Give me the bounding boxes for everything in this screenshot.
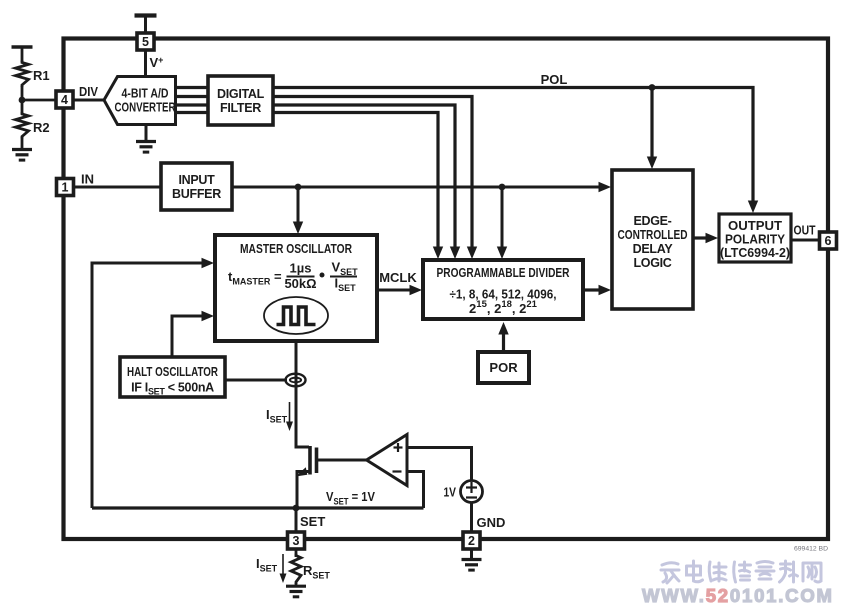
junction IN to master oscillator	[295, 184, 302, 191]
resistor R2	[16, 112, 29, 139]
svg-text:4: 4	[61, 93, 68, 107]
4-bit A/D converter	[104, 77, 176, 125]
pin 3	[288, 532, 305, 549]
wire MCLK	[377, 285, 422, 295]
wire 1V to pin 2	[470, 503, 473, 533]
resistor R1	[16, 61, 29, 88]
wire master oscillator to MOSFET drain	[296, 341, 309, 447]
wire pin5 to A/D converter	[144, 50, 147, 78]
svg-text:(LTC6994-2): (LTC6994-2)	[720, 246, 790, 260]
master oscillator box	[215, 235, 377, 341]
pin 2	[463, 532, 480, 549]
svg-text:SET: SET	[300, 514, 325, 529]
wire IN to master oscillator	[293, 187, 303, 234]
junction POL to edge logic	[649, 84, 656, 91]
svg-text:DIV: DIV	[79, 84, 98, 99]
output polarity box	[719, 214, 791, 262]
svg-text:50kΩ: 50kΩ	[284, 276, 316, 291]
wire POL to edge logic	[647, 88, 657, 170]
svg-text:DELAY: DELAY	[633, 242, 674, 256]
node DIV junction	[19, 97, 26, 104]
edge-controlled delay logic	[612, 170, 693, 309]
svg-text:3: 3	[293, 534, 300, 548]
junction SET node	[293, 505, 300, 512]
resistor RSET	[291, 554, 301, 585]
svg-text:R2: R2	[33, 120, 50, 135]
svg-text:HALT OSCILLATOR: HALT OSCILLATOR	[127, 365, 218, 379]
svg-text:DIGITAL: DIGITAL	[217, 87, 265, 101]
svg-text:6: 6	[825, 234, 832, 248]
wire op-amp + to 1V source	[407, 448, 472, 482]
wire filter bit1 to divider	[273, 97, 477, 260]
pin 6	[820, 232, 837, 249]
pin 5	[137, 33, 154, 50]
svg-text:BUFFER: BUFFER	[172, 187, 221, 201]
junction IN to divider	[499, 184, 506, 191]
wire filter bit2 to divider	[273, 105, 460, 259]
input buffer	[161, 163, 232, 210]
wire halt to sense	[225, 379, 287, 382]
V+ supply rail	[135, 16, 157, 35]
svg-text:POL: POL	[541, 72, 568, 87]
wire R2 to ground	[21, 137, 24, 149]
wire edge logic to output polarity	[693, 233, 718, 243]
svg-text:EDGE-: EDGE-	[633, 214, 671, 228]
IC boundary	[64, 39, 829, 540]
svg-text:MASTER OSCILLATOR: MASTER OSCILLATOR	[240, 241, 352, 256]
svg-text:INPUT: INPUT	[178, 173, 215, 187]
svg-text:1V: 1V	[444, 485, 457, 500]
op-amp U1	[367, 435, 408, 486]
wire pin4 to A/D converter	[73, 99, 106, 102]
wire IN to divider	[497, 187, 507, 259]
svg-text:POR: POR	[489, 360, 518, 375]
wire output polarity to pin 6	[791, 239, 820, 242]
wire VSET line	[92, 506, 424, 509]
wire pin 3 to RSET	[295, 549, 298, 557]
label tMASTER equation	[228, 260, 358, 294]
svg-text:5: 5	[142, 35, 149, 49]
wire filter bit3 to divider	[273, 113, 443, 260]
svg-text:VSET = 1V: VSET = 1V	[326, 489, 375, 507]
V+ supply rail (R1)	[12, 47, 33, 62]
ground (pin 2)	[462, 549, 482, 570]
svg-text:GND: GND	[477, 515, 506, 530]
POR box	[478, 352, 529, 383]
wire POL	[273, 88, 758, 214]
wire feedback to master oscillator	[92, 258, 214, 508]
watermark chinese text	[661, 561, 821, 583]
wire A/D to ground	[145, 125, 148, 142]
svg-text:R1: R1	[33, 68, 50, 83]
svg-text:699412 BD: 699412 BD	[794, 546, 828, 553]
ground (RSET)	[286, 583, 306, 597]
svg-text:1: 1	[62, 181, 69, 195]
svg-text:MCLK: MCLK	[379, 270, 417, 285]
arrow ISET (drain)	[286, 402, 293, 431]
wire SET node to pin 3	[295, 508, 298, 532]
wire R1 to R2	[21, 86, 24, 114]
current sense symbol	[286, 374, 306, 387]
wire op-amp inverting input	[408, 472, 424, 509]
arrow ISET (RSET)	[280, 554, 287, 583]
ground (R2)	[12, 150, 32, 161]
svg-text:1µs: 1µs	[290, 261, 312, 276]
svg-text:LOGIC: LOGIC	[633, 256, 671, 270]
voltage source 1V	[461, 481, 483, 503]
svg-text:IN: IN	[81, 172, 94, 187]
svg-text:IF ISET < 500nA: IF ISET < 500nA	[131, 381, 214, 397]
transistor M1	[296, 446, 368, 508]
wire halt to master oscillator	[172, 311, 214, 356]
wire divider to edge logic	[583, 285, 611, 295]
svg-text:CONTROLLED: CONTROLLED	[618, 228, 688, 242]
svg-text:OUTPUT: OUTPUT	[728, 219, 782, 233]
wire node to pin 4	[22, 99, 56, 102]
svg-text:OUT: OUT	[794, 223, 816, 238]
svg-text:PROGRAMMABLE DIVIDER: PROGRAMMABLE DIVIDER	[437, 265, 570, 280]
svg-text:4-BIT A/D: 4-BIT A/D	[122, 87, 169, 101]
bus A/D to digital filter	[176, 88, 210, 113]
svg-text:CONVERTER: CONVERTER	[115, 101, 176, 115]
pin 4	[56, 91, 73, 108]
ground (A/D converter)	[136, 142, 156, 153]
pin 1	[57, 179, 74, 196]
svg-text:FILTER: FILTER	[220, 101, 261, 115]
programmable divider	[423, 260, 583, 319]
digital filter	[208, 76, 273, 125]
oscillator waveform symbol	[264, 297, 328, 334]
wire pin1 to input buffer	[74, 186, 163, 189]
svg-text:POLARITY: POLARITY	[725, 233, 786, 247]
wire input buffer to edge logic	[232, 182, 611, 192]
halt oscillator box	[120, 357, 225, 397]
svg-text:WWW.520101.COM: WWW.520101.COM	[642, 585, 834, 606]
wire POR to divider	[498, 322, 508, 352]
svg-text:2: 2	[468, 534, 475, 548]
